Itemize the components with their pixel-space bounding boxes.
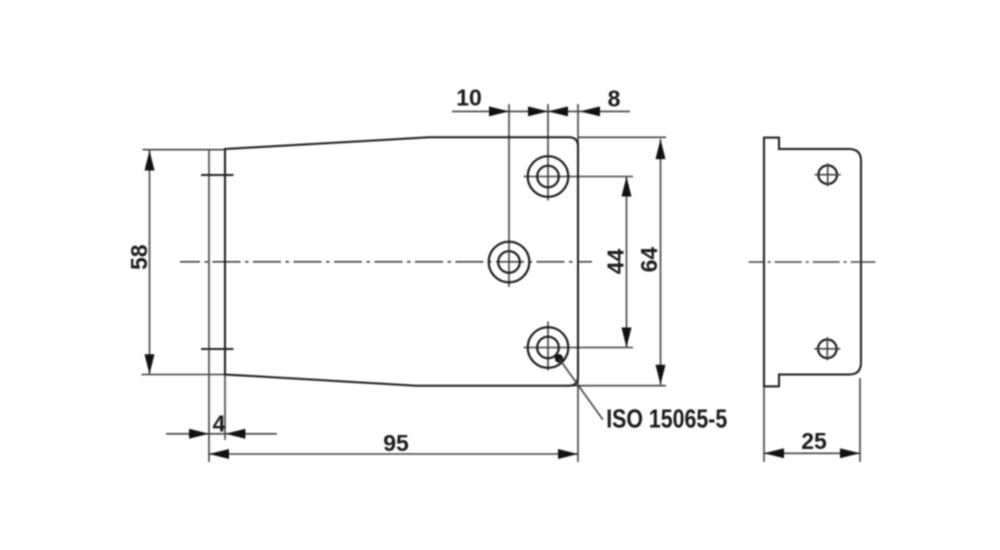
svg-text:95: 95: [383, 430, 409, 456]
center line side view: [749, 261, 876, 263]
extension line 64 top: [578, 136, 666, 138]
hole top outer: [528, 156, 569, 197]
side view outline: [764, 138, 861, 387]
dimension 95: [209, 453, 578, 455]
extension side left: [763, 386, 765, 462]
svg-text:25: 25: [801, 428, 827, 454]
leader dot on bottom hole: [555, 354, 563, 362]
lip tick bottom: [201, 348, 234, 350]
svg-text:ISO 15065-5: ISO 15065-5: [606, 403, 727, 433]
svg-text:10: 10: [456, 85, 482, 111]
arrow tip at 548 pointing left: [548, 106, 568, 116]
crosshair horizontal top hole / 44 extension top: [524, 176, 634, 178]
leader line: [559, 359, 603, 420]
crosshair vertical bottom hole: [547, 322, 549, 371]
extension line bottom-left for 58: [142, 374, 226, 376]
side hole top: [818, 165, 837, 184]
main view part outline: [225, 137, 578, 385]
center line main view: [180, 261, 592, 263]
dimension 58: [149, 151, 151, 375]
extension line 64 bottom: [563, 385, 666, 387]
hole top inner: [537, 166, 559, 188]
dimension 44: [626, 177, 628, 348]
arrow tip at 548 pointing right: [528, 106, 548, 116]
dimension 4: [166, 433, 277, 435]
dimension 25: [764, 452, 860, 454]
extension line x578 right edge: [577, 104, 579, 462]
svg-text:4: 4: [213, 411, 226, 437]
extension side right: [859, 378, 861, 462]
hole middle outer: [489, 242, 530, 283]
lip inner edge line: [224, 149, 226, 375]
svg-text:44: 44: [603, 249, 629, 275]
extension line left lip x209: [208, 150, 210, 463]
extension line x548 through top hole: [547, 104, 549, 201]
side hole bottom: [818, 340, 837, 359]
hole bottom outer: [528, 327, 569, 368]
arrow tip at 509 pointing right: [489, 106, 509, 116]
extension line left lip x225 below part: [224, 375, 226, 441]
lip tick top: [201, 174, 234, 176]
dimension line top 10 and 8: [452, 110, 630, 112]
svg-text:64: 64: [636, 247, 662, 273]
extension line top-left for 58: [143, 149, 226, 151]
dimension 64: [660, 139, 662, 385]
side hole bottom crosshair: [814, 337, 840, 360]
crosshair horizontal bottom hole / 44 extension bottom: [524, 347, 634, 349]
arrow tip at 580 pointing left: [580, 106, 600, 116]
hole bottom inner: [537, 337, 559, 359]
hole middle inner: [498, 251, 520, 273]
side hole top crosshair: [815, 163, 841, 186]
extension line x509 through middle hole: [508, 104, 510, 287]
svg-text:8: 8: [608, 86, 621, 112]
svg-text:58: 58: [126, 244, 152, 270]
